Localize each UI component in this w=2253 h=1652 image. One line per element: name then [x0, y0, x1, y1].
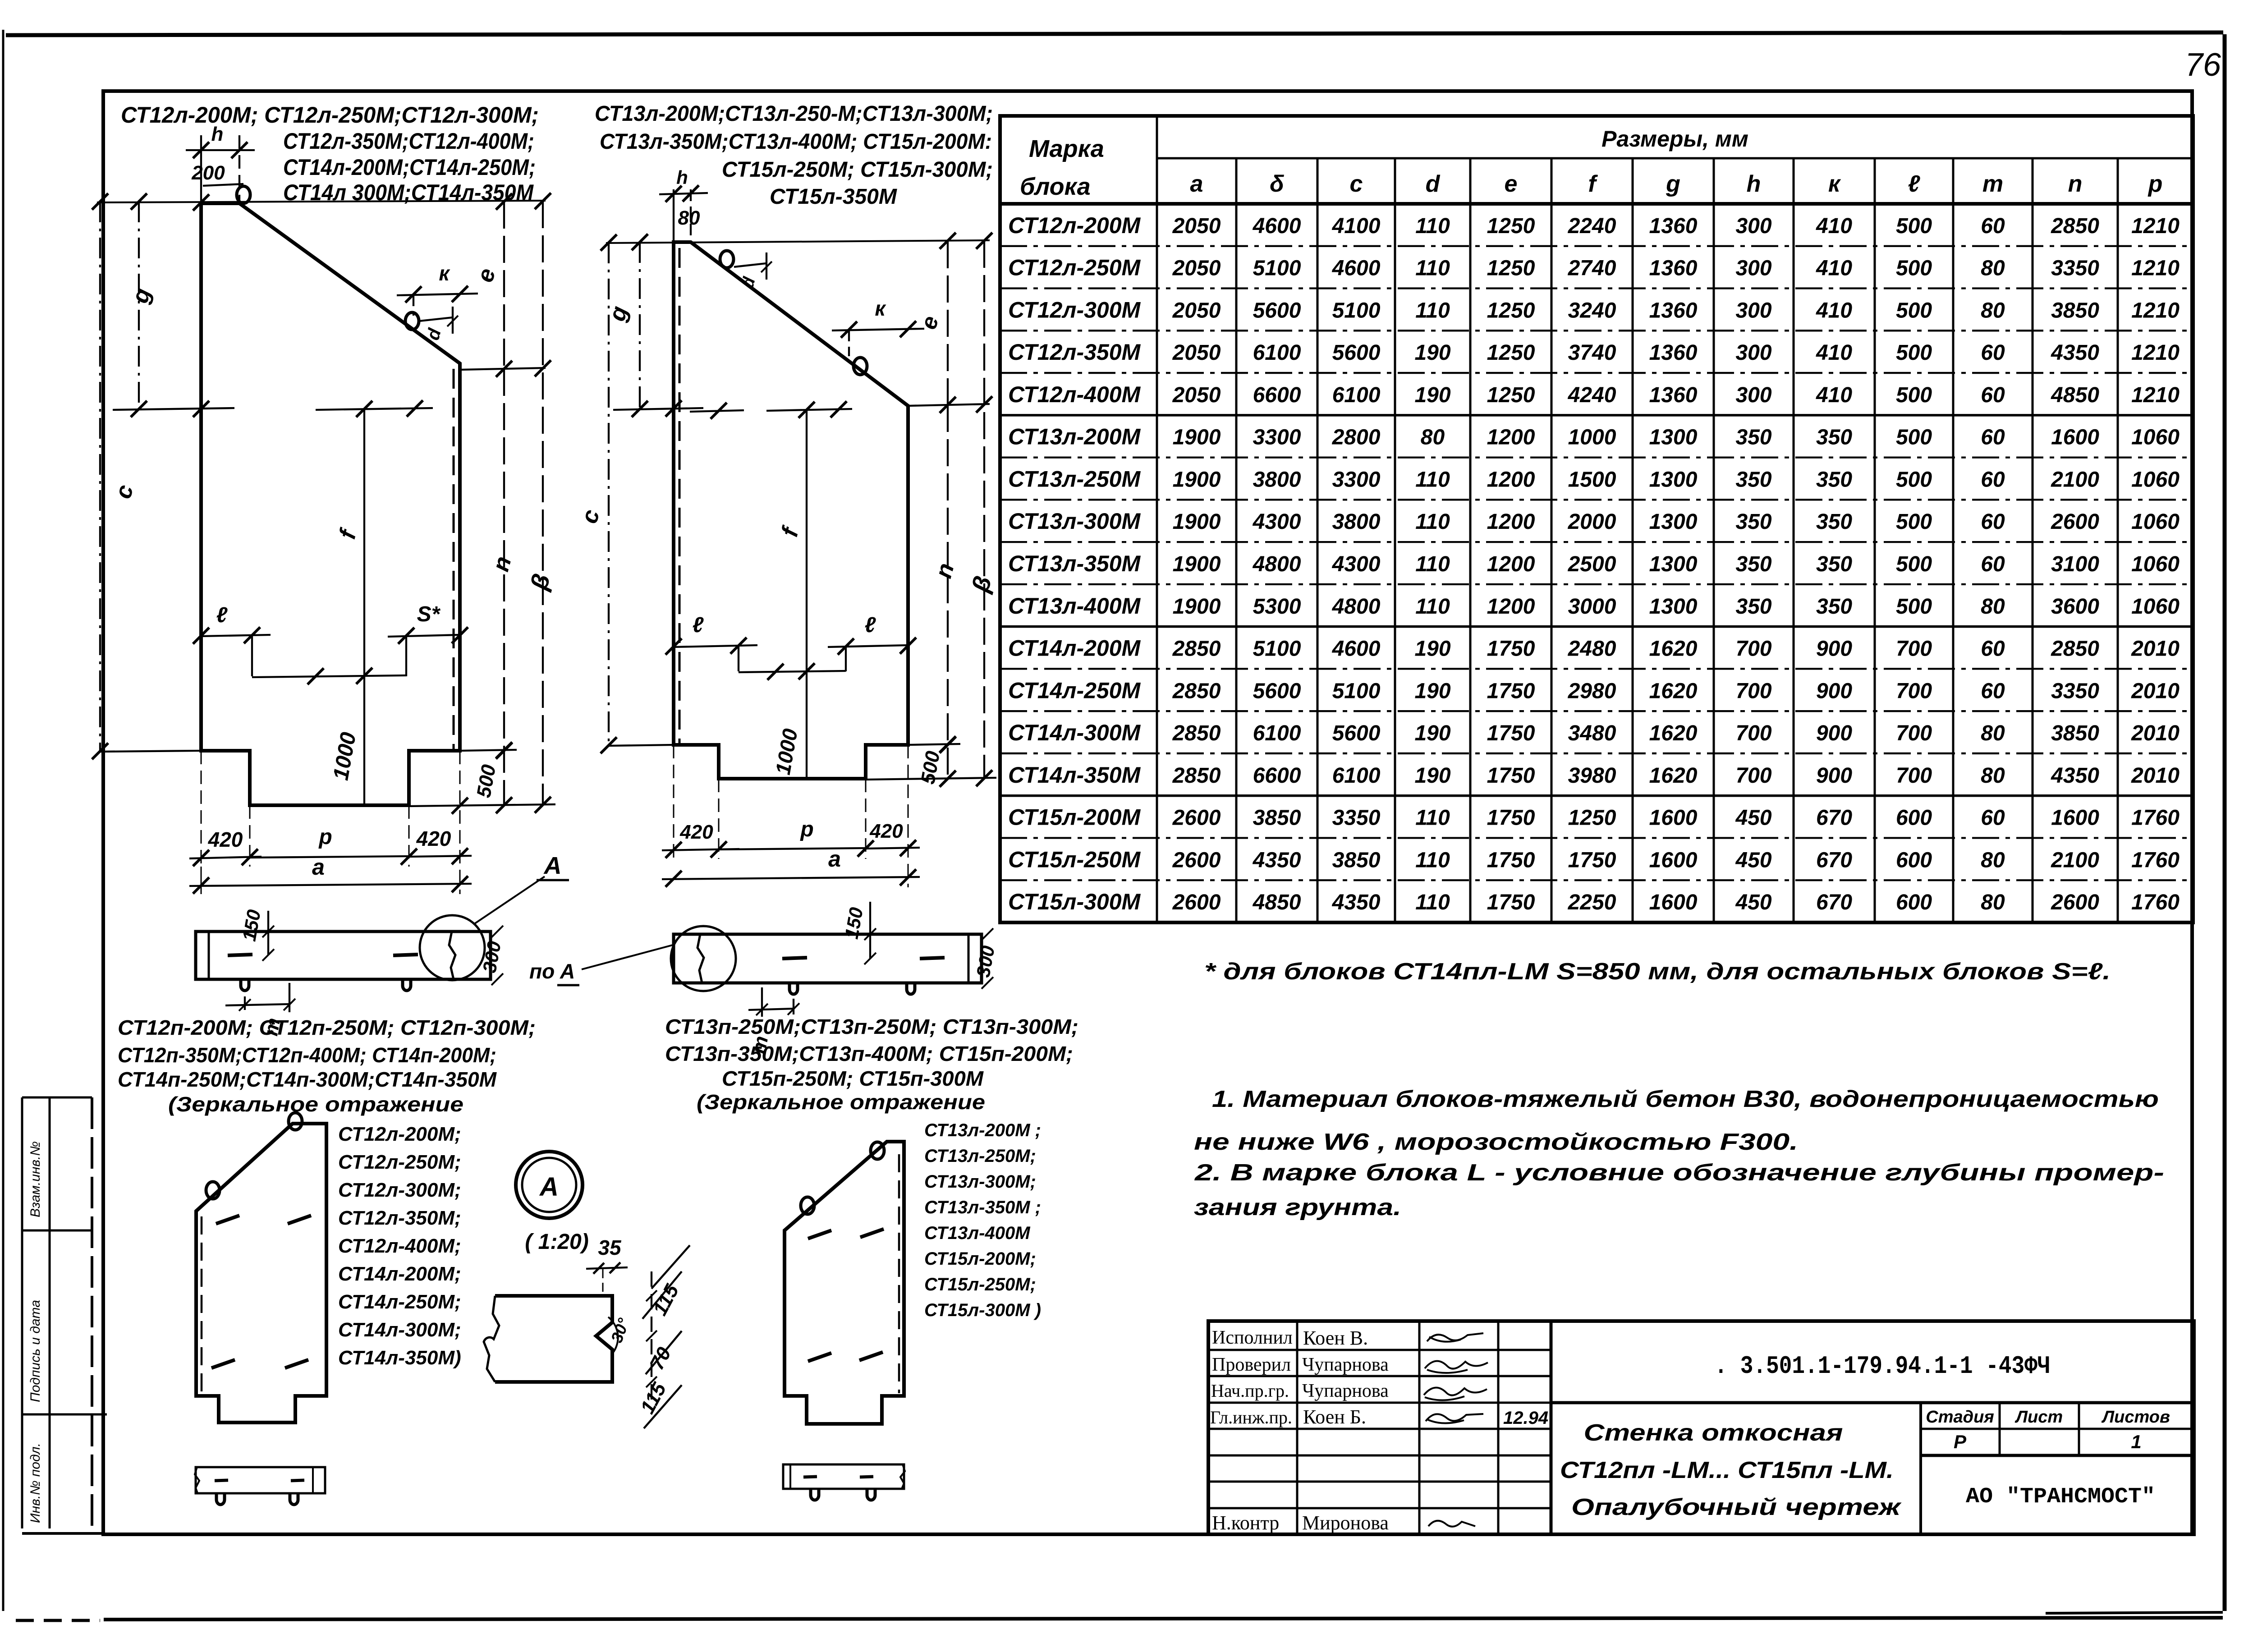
svg-text:Исполнил: Исполнил: [1212, 1327, 1293, 1348]
svg-text:1. Материал блоков-тяжелый: 1. Материал блоков-тяжелый бетон В30, во…: [1212, 1086, 2159, 1112]
svg-text:80: 80: [1421, 426, 1445, 450]
svg-text:3740: 3740: [1568, 341, 1616, 365]
svg-text:500: 500: [1896, 595, 1932, 619]
svg-text:2500: 2500: [1568, 552, 1616, 576]
svg-text:3800: 3800: [1332, 510, 1381, 534]
svg-text:. 3.501.1-179.94.1-1 -43ФЧ: . 3.501.1-179.94.1-1 -43ФЧ: [1715, 1352, 2051, 1381]
svg-text:2000: 2000: [1568, 510, 1616, 534]
svg-text:1600: 1600: [1649, 848, 1698, 872]
title block outer: [1208, 1321, 2194, 1534]
mirror block 2 dashed edge: [898, 1154, 900, 1393]
svg-text:СТ15л-250М;: СТ15л-250М;: [924, 1275, 1036, 1294]
svg-text:1760: 1760: [2131, 806, 2180, 830]
svg-text:350: 350: [1816, 595, 1852, 619]
mirror block 2 loop slope: [801, 1197, 814, 1214]
svg-text:* для блоков СТ14пл-LМ S=850: * для блоков СТ14пл-LМ S=850 мм, для ост…: [1204, 959, 2111, 985]
svg-text:420: 420: [416, 827, 451, 850]
dim m plan2: [793, 999, 794, 1014]
svg-text:80: 80: [1981, 890, 2005, 914]
dim k2: [832, 329, 924, 330]
svg-text:2050: 2050: [1172, 383, 1221, 407]
svg-text:СТ12л-200М;: СТ12л-200М;: [338, 1123, 461, 1145]
svg-text:СТ15л-300М: СТ15л-300М: [1008, 889, 1141, 914]
left strip divider 2: [22, 1413, 107, 1416]
detail A drawing: body: [495, 1296, 612, 1382]
svg-text:670: 670: [1816, 806, 1852, 830]
svg-text:1210: 1210: [2131, 214, 2180, 238]
svg-text:1360: 1360: [1649, 298, 1698, 322]
svg-text:2010: 2010: [2131, 764, 2180, 788]
dim e2 terminator: [908, 404, 990, 406]
svg-text:5100: 5100: [1332, 679, 1381, 703]
block 1 lifting loop on slope: [405, 312, 419, 330]
detail circle on plan 2: [671, 926, 736, 991]
dim g2 bottom terminator: [613, 408, 703, 410]
svg-text:СТ14л-300М;: СТ14л-300М;: [338, 1319, 461, 1341]
svg-text:5600: 5600: [1332, 721, 1381, 745]
svg-text:3100: 3100: [2051, 552, 2099, 576]
svg-text:1000: 1000: [329, 730, 361, 782]
svg-text:5100: 5100: [1253, 637, 1301, 661]
plan view 1 loop mark left: [228, 954, 252, 955]
svg-text:4850: 4850: [2051, 383, 2099, 407]
svg-text:СТ12л-250М;: СТ12л-250М;: [338, 1151, 461, 1173]
svg-text:f: f: [1588, 171, 1598, 197]
svg-text:1360: 1360: [1649, 383, 1698, 407]
svg-text:1210: 1210: [2131, 298, 2180, 322]
block 2 lifting loop on slope: [853, 358, 867, 375]
svg-text:Нач.пр.гр.: Нач.пр.гр.: [1211, 1381, 1289, 1401]
svg-text:СТ14л-350М: СТ14л-350М: [1008, 762, 1141, 788]
svg-text:СТ12л-400М: СТ12л-400М: [1008, 382, 1141, 407]
svg-text:700: 700: [1735, 679, 1771, 703]
svg-text:СТ15л-350М: СТ15л-350М: [770, 185, 897, 209]
block 1 back dashed line: [453, 369, 455, 751]
svg-text:h: h: [1747, 171, 1761, 197]
svg-text:6100: 6100: [1332, 383, 1381, 407]
svg-text:1060: 1060: [2131, 510, 2180, 534]
svg-text:1200: 1200: [1487, 468, 1535, 491]
plan view 1 break line in circle: [449, 932, 455, 979]
svg-text:1620: 1620: [1649, 637, 1698, 661]
svg-text:1210: 1210: [2131, 257, 2180, 280]
svg-text:3850: 3850: [1253, 806, 1301, 830]
svg-text:76: 76: [2185, 47, 2221, 83]
svg-text:3240: 3240: [1568, 298, 1616, 322]
svg-text:d: d: [1426, 171, 1441, 197]
block 2 lifting loop top: [720, 251, 734, 268]
svg-text:СТ12л-350М;СТ12л-400М;: СТ12л-350М;СТ12л-400М;: [283, 128, 534, 154]
svg-text:500: 500: [1896, 552, 1932, 576]
svg-text:β: β: [525, 571, 555, 593]
svg-text:Взам.инв.№: Взам.инв.№: [28, 1141, 43, 1217]
svg-text:1250: 1250: [1487, 298, 1535, 322]
dim m plan1: [244, 996, 246, 1010]
dim c2 extension: [608, 243, 610, 745]
svg-text:1250: 1250: [1568, 806, 1616, 830]
block 2 outline: [674, 242, 908, 779]
dim n line: [503, 369, 505, 805]
svg-text:60: 60: [1981, 214, 2005, 238]
svg-text:110: 110: [1415, 595, 1450, 619]
svg-text:Миронова: Миронова: [1302, 1512, 1389, 1534]
svg-text:500: 500: [1896, 298, 1932, 322]
svg-text:5300: 5300: [1253, 595, 1301, 619]
svg-text:не ниже W6 , морозостойкостью: не ниже W6 , морозостойкостью F300.: [1194, 1129, 1798, 1155]
svg-text:3350: 3350: [2051, 679, 2099, 703]
svg-text:1250: 1250: [1487, 214, 1535, 238]
svg-text:190: 190: [1414, 383, 1450, 407]
svg-text:2050: 2050: [1172, 257, 1221, 280]
svg-text:6100: 6100: [1253, 341, 1301, 365]
svg-text:1300: 1300: [1649, 552, 1698, 576]
table header bottom line: [1000, 202, 2193, 206]
svg-text:350: 350: [1735, 595, 1771, 619]
svg-text:60: 60: [1981, 383, 2005, 407]
svg-text:350: 350: [1816, 510, 1852, 534]
svg-text:СТ14л-250М: СТ14л-250М: [1008, 678, 1141, 703]
svg-text:1900: 1900: [1173, 468, 1221, 491]
svg-text:500: 500: [1896, 510, 1932, 534]
top dimension line: [97, 201, 546, 202]
step level extension left: [100, 751, 201, 752]
svg-text:1900: 1900: [1173, 426, 1221, 450]
svg-text:60: 60: [1981, 679, 2005, 703]
svg-text:f: f: [776, 523, 804, 539]
svg-text:1620: 1620: [1649, 679, 1698, 703]
dim d2 pointer: [734, 263, 766, 267]
svg-text:2050: 2050: [1172, 341, 1221, 365]
plan view 2 loop mark right: [920, 958, 945, 959]
svg-text:2850: 2850: [2051, 637, 2099, 661]
svg-text:900: 900: [1816, 721, 1852, 745]
svg-text:900: 900: [1816, 679, 1852, 703]
svg-text:1360: 1360: [1649, 257, 1698, 280]
svg-text:2600: 2600: [1172, 848, 1221, 872]
svg-text:g: g: [1666, 171, 1680, 197]
svg-text:СТ13л-300М: СТ13л-300М: [1008, 509, 1141, 534]
svg-text:5600: 5600: [1253, 679, 1301, 703]
svg-text:4600: 4600: [1332, 257, 1381, 280]
detail dim ticks: [646, 1290, 657, 1301]
svg-text:670: 670: [1816, 848, 1852, 872]
svg-text:700: 700: [1896, 764, 1932, 788]
dim n2 line: [947, 405, 949, 779]
svg-text:СТ14л-350М): СТ14л-350М): [338, 1347, 461, 1369]
svg-text:1060: 1060: [2131, 552, 2180, 576]
svg-text:6600: 6600: [1253, 764, 1301, 788]
svg-text:СТ12л-200М: СТ12л-200М: [1008, 213, 1141, 238]
dim g extension (vertical dash-dot): [138, 202, 140, 409]
svg-text:350: 350: [1735, 426, 1771, 450]
svg-text:СТ15л-200М: СТ15л-200М: [1008, 805, 1141, 830]
svg-text:СТ15л-300М ): СТ15л-300М ): [924, 1300, 1041, 1320]
svg-text:1600: 1600: [1649, 890, 1698, 914]
svg-text:СТ14л-300М: СТ14л-300М: [1008, 720, 1141, 745]
svg-text:Лист: Лист: [2014, 1408, 2063, 1427]
svg-text:500: 500: [1896, 426, 1932, 450]
svg-text:4300: 4300: [1253, 510, 1301, 534]
mirror block 1 loop slope: [206, 1182, 220, 1199]
svg-text:1600: 1600: [1649, 806, 1698, 830]
dim e2 line: [947, 241, 949, 405]
dim b2 line: [983, 241, 985, 779]
svg-text:190: 190: [1414, 679, 1450, 703]
svg-text:600: 600: [1896, 848, 1932, 872]
svg-text:1200: 1200: [1487, 595, 1535, 619]
svg-text:e: e: [472, 266, 501, 285]
svg-text:2480: 2480: [1568, 637, 1616, 661]
svg-text:450: 450: [1735, 848, 1771, 872]
svg-text:к: к: [439, 262, 450, 285]
svg-text:60: 60: [1981, 341, 2005, 365]
page bottom-left dashed scan line: [16, 1619, 100, 1622]
svg-text:СТ13л-250М;: СТ13л-250М;: [924, 1146, 1036, 1166]
svg-text:60: 60: [1981, 468, 2005, 491]
dim f2 top terminator: [766, 409, 852, 411]
svg-text:110: 110: [1415, 257, 1450, 280]
svg-text:350: 350: [1816, 552, 1852, 576]
svg-text:4600: 4600: [1332, 637, 1381, 661]
svg-text:1250: 1250: [1487, 257, 1535, 280]
svg-text:80: 80: [1981, 257, 2005, 280]
detail 70: [646, 1331, 682, 1374]
svg-text:500: 500: [1896, 257, 1932, 280]
svg-text:3800: 3800: [1253, 468, 1301, 491]
svg-text:110: 110: [1415, 848, 1450, 872]
svg-text:670: 670: [1816, 890, 1852, 914]
dim e bottom terminator: [460, 368, 546, 370]
plan view 2 end cap: [968, 934, 970, 983]
svg-text:2850: 2850: [1172, 679, 1221, 703]
svg-text:2600: 2600: [1172, 806, 1221, 830]
mirror block 1 outline: [196, 1124, 326, 1423]
svg-text:h: h: [211, 123, 224, 145]
svg-text:m: m: [1982, 171, 2003, 197]
page right border line: [2223, 34, 2227, 1611]
svg-text:СТ13п-250М;СТ13п-250М; СТ13п-3: СТ13п-250М;СТ13п-250М; СТ13п-300М;: [665, 1015, 1078, 1038]
svg-text:СТ12л-300М: СТ12л-300М: [1008, 297, 1141, 322]
svg-text:500: 500: [473, 763, 500, 799]
plan view 1 outline: [196, 932, 491, 979]
svg-text:1000: 1000: [1568, 426, 1616, 450]
svg-text:600: 600: [1896, 890, 1932, 914]
svg-text:1210: 1210: [2131, 341, 2180, 365]
dim k line: [397, 294, 478, 295]
svg-text:d: d: [738, 275, 759, 290]
svg-text:60: 60: [1981, 637, 2005, 661]
svg-text:(Зеркальное отражение: (Зеркальное отражение: [697, 1090, 985, 1114]
svg-text:60: 60: [1981, 806, 2005, 830]
dim l2 left: [674, 645, 757, 647]
svg-text:c: c: [576, 507, 605, 526]
svg-text:5600: 5600: [1332, 341, 1381, 365]
svg-text:СТ14л-200М;СТ14л-250М;: СТ14л-200М;СТ14л-250М;: [283, 155, 536, 180]
plan view 1 hook left: [241, 979, 249, 991]
table column lines: [1156, 116, 1158, 922]
svg-text:2850: 2850: [1172, 637, 1221, 661]
svg-text:Размеры, мм: Размеры, мм: [1601, 126, 1748, 151]
detail A break line left: [484, 1296, 499, 1382]
svg-text:410: 410: [1816, 298, 1852, 322]
svg-text:1760: 1760: [2131, 890, 2180, 914]
svg-text:2850: 2850: [1172, 764, 1221, 788]
svg-text:4350: 4350: [2051, 764, 2099, 788]
title block column lines: [1296, 1321, 1299, 1534]
svg-text:3600: 3600: [2051, 595, 2099, 619]
svg-text:1750: 1750: [1487, 890, 1535, 914]
svg-text:ℓ: ℓ: [1908, 171, 1921, 197]
svg-text:2050: 2050: [1172, 214, 1221, 238]
dim g bottom terminator: [113, 408, 234, 410]
svg-text:f: f: [334, 525, 362, 541]
svg-text:420: 420: [679, 821, 713, 843]
table header razmery line: [1157, 157, 2193, 160]
svg-text:1620: 1620: [1649, 764, 1698, 788]
svg-text:1250: 1250: [1487, 383, 1535, 407]
svg-text:СТ15п-250М; СТ15п-300М: СТ15п-250М; СТ15п-300М: [722, 1067, 984, 1090]
svg-text:СТ13л-200М: СТ13л-200М: [1008, 424, 1141, 450]
svg-text:1500: 1500: [1568, 468, 1616, 491]
svg-text:1: 1: [2131, 1431, 2141, 1452]
svg-text:p: p: [318, 825, 332, 849]
svg-text:1760: 1760: [2131, 848, 2180, 872]
svg-text:3480: 3480: [1568, 721, 1616, 745]
svg-text:2100: 2100: [2051, 468, 2099, 491]
svg-text:2740: 2740: [1568, 257, 1616, 280]
dim g2 extension: [639, 242, 641, 409]
svg-text:СТ14п-250М;СТ14п-300М;СТ14п-35: СТ14п-250М;СТ14п-300М;СТ14п-350М: [118, 1068, 497, 1091]
base ext 2: [866, 778, 996, 780]
svg-text:1750: 1750: [1487, 764, 1535, 788]
plan view 2 hook right: [907, 983, 915, 994]
svg-text:1060: 1060: [2131, 468, 2180, 491]
svg-text:4240: 4240: [1568, 383, 1616, 407]
svg-text:СТ13л-200М;СТ13л-250-М;СТ13л-3: СТ13л-200М;СТ13л-250-М;СТ13л-300М;: [595, 102, 993, 126]
svg-text:ℓ: ℓ: [865, 613, 876, 637]
svg-text:2010: 2010: [2131, 679, 2180, 703]
svg-text:β: β: [967, 573, 997, 596]
svg-text:А: А: [543, 852, 562, 879]
svg-text:350: 350: [1735, 552, 1771, 576]
svg-text:СТ12л-250М: СТ12л-250М: [1008, 255, 1141, 280]
plan view 2 outline: [674, 934, 982, 983]
svg-text:190: 190: [1414, 637, 1450, 661]
svg-text:410: 410: [1816, 383, 1852, 407]
plan view 2 break in circle: [697, 934, 704, 983]
svg-text:5600: 5600: [1253, 298, 1301, 322]
block 1 outline: [201, 203, 460, 805]
dim f line: [363, 409, 365, 805]
svg-text:110: 110: [1415, 510, 1450, 534]
svg-text:СТ13л-350М ;: СТ13л-350М ;: [924, 1198, 1041, 1217]
page top border line: [6, 32, 2223, 35]
svg-text:n: n: [930, 560, 959, 581]
svg-text:по: по: [529, 959, 555, 983]
svg-text:3350: 3350: [2051, 257, 2099, 280]
svg-text:350: 350: [1735, 510, 1771, 534]
svg-text:СТ13л-400М: СТ13л-400М: [1008, 593, 1141, 619]
svg-text:35: 35: [598, 1236, 622, 1259]
svg-text:115: 115: [636, 1379, 670, 1417]
top dimension line 2: [606, 240, 990, 243]
mirror block 1 anchor marks: [216, 1216, 239, 1224]
svg-text:Чупарнова: Чупарнова: [1302, 1381, 1389, 1401]
svg-text:Чупарнова: Чупарнова: [1302, 1354, 1389, 1375]
svg-text:4600: 4600: [1253, 214, 1301, 238]
svg-text:n: n: [487, 554, 516, 574]
dims 420 p 420 a (drawing 2): [662, 849, 739, 850]
svg-text:900: 900: [1816, 637, 1852, 661]
svg-text:700: 700: [1735, 721, 1771, 745]
block 1 lifting loop top: [237, 186, 250, 203]
svg-text:1060: 1060: [2131, 426, 2180, 450]
svg-text:ℓ: ℓ: [693, 613, 704, 637]
svg-text:СТ12л-400М;: СТ12л-400М;: [338, 1235, 461, 1257]
svg-text:2050: 2050: [1172, 298, 1221, 322]
svg-text:80: 80: [678, 207, 700, 229]
svg-text:1600: 1600: [2051, 426, 2099, 450]
svg-text:a: a: [312, 854, 325, 880]
svg-text:1750: 1750: [1487, 721, 1535, 745]
svg-text:1250: 1250: [1487, 341, 1535, 365]
mirror plan left: [196, 1467, 325, 1493]
svg-text:110: 110: [1415, 806, 1450, 830]
svg-text:Гл.инж.пр.: Гл.инж.пр.: [1210, 1407, 1292, 1427]
connector line between l and S: [252, 675, 406, 677]
svg-text:δ: δ: [1270, 171, 1284, 197]
step level ext left 2: [609, 745, 674, 746]
svg-text:3300: 3300: [1253, 426, 1301, 450]
dim l left line: [201, 635, 271, 636]
svg-text:Коен Б.: Коен Б.: [1303, 1406, 1366, 1428]
svg-text:1300: 1300: [1649, 595, 1698, 619]
svg-text:h: h: [676, 167, 688, 188]
svg-text:1750: 1750: [1487, 848, 1535, 872]
svg-text:4100: 4100: [1332, 214, 1381, 238]
page left border line: [2, 30, 5, 1611]
svg-text:Н.контр: Н.контр: [1212, 1512, 1279, 1534]
svg-text:СТ13л-400М: СТ13л-400М: [924, 1223, 1031, 1243]
svg-text:700: 700: [1735, 637, 1771, 661]
step level ext right 2: [908, 744, 960, 745]
title block row lines (left part): [1208, 1349, 1551, 1351]
svg-text:2800: 2800: [1332, 426, 1381, 450]
svg-text:ℓ: ℓ: [216, 603, 228, 627]
svg-text:4800: 4800: [1332, 595, 1381, 619]
svg-text:3850: 3850: [2051, 721, 2099, 745]
plan view 2 loop mark left: [782, 958, 807, 959]
svg-text:1750: 1750: [1487, 679, 1535, 703]
svg-text:g: g: [127, 285, 156, 307]
dim 420 left: line: [189, 857, 262, 858]
svg-text:1620: 1620: [1649, 721, 1698, 745]
svg-text:500: 500: [1896, 383, 1932, 407]
svg-text:СТ15л-250М: СТ15л-250М: [1008, 847, 1141, 872]
mirror block 2 outline: [785, 1142, 904, 1424]
dim e line: [503, 202, 505, 369]
svg-text:190: 190: [1414, 721, 1450, 745]
dim f top terminator: [316, 408, 433, 410]
svg-text:700: 700: [1896, 721, 1932, 745]
detail 115 top: [642, 1271, 682, 1319]
svg-text:1300: 1300: [1649, 468, 1698, 491]
svg-text:3300: 3300: [1332, 468, 1381, 491]
dim b line: [542, 201, 544, 805]
svg-text:700: 700: [1896, 637, 1932, 661]
svg-text:2980: 2980: [1568, 679, 1616, 703]
svg-text:1000: 1000: [771, 727, 802, 776]
